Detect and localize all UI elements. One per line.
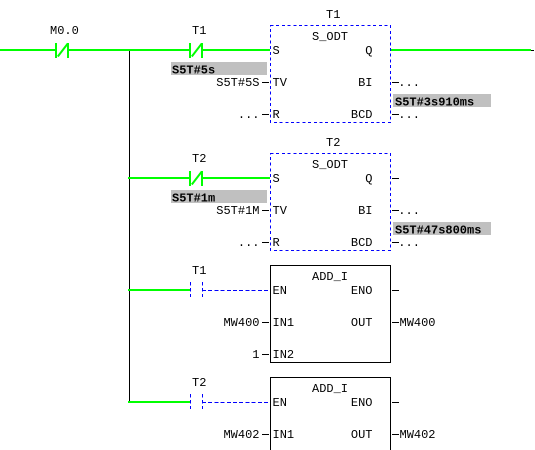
svg-text:T2: T2 (326, 136, 340, 150)
svg-text:S_ODT: S_ODT (312, 30, 348, 44)
svg-text:T2: T2 (192, 376, 206, 390)
svg-text:S: S (273, 172, 280, 186)
svg-text:...: ... (398, 204, 420, 218)
svg-text:T2: T2 (192, 152, 206, 166)
svg-text:TV: TV (273, 76, 288, 90)
svg-text:S5T#1M: S5T#1M (216, 204, 259, 218)
svg-text:IN2: IN2 (273, 348, 295, 362)
svg-text:...: ... (398, 108, 420, 122)
svg-text:BI: BI (358, 76, 372, 90)
svg-text:MW400: MW400 (223, 316, 259, 330)
svg-text:1: 1 (252, 348, 259, 362)
svg-text:R: R (273, 236, 280, 250)
svg-text:BCD: BCD (351, 236, 373, 250)
svg-text:...: ... (398, 236, 420, 250)
svg-text:Q: Q (365, 44, 372, 58)
svg-text:Q: Q (365, 172, 372, 186)
svg-text:R: R (273, 108, 280, 122)
svg-text:IN1: IN1 (273, 428, 295, 442)
svg-text:M0.0: M0.0 (50, 24, 79, 38)
svg-text:MW400: MW400 (400, 316, 436, 330)
svg-text:...: ... (238, 108, 260, 122)
svg-text:OUT: OUT (351, 316, 373, 330)
svg-text:S5T#5s: S5T#5s (172, 63, 215, 77)
svg-text:S5T#1m: S5T#1m (172, 191, 215, 205)
svg-text:T1: T1 (192, 24, 206, 38)
svg-text:...: ... (398, 76, 420, 90)
svg-text:ENO: ENO (351, 396, 373, 410)
svg-text:S: S (273, 44, 280, 58)
svg-text:OUT: OUT (351, 428, 373, 442)
svg-text:MW402: MW402 (223, 428, 259, 442)
svg-text:S5T#3s910ms: S5T#3s910ms (395, 95, 474, 109)
svg-text:S_ODT: S_ODT (312, 158, 348, 172)
svg-text:S5T#47s800ms: S5T#47s800ms (395, 223, 481, 237)
svg-text:EN: EN (273, 396, 287, 410)
svg-text:BI: BI (358, 204, 372, 218)
svg-text:ADD_I: ADD_I (312, 270, 348, 284)
svg-text:S5T#5S: S5T#5S (216, 76, 259, 90)
svg-text:TV: TV (273, 204, 288, 218)
svg-text:T1: T1 (326, 8, 340, 22)
svg-text:MW402: MW402 (400, 428, 436, 442)
svg-text:EN: EN (273, 284, 287, 298)
svg-text:T1: T1 (192, 264, 206, 278)
svg-text:BCD: BCD (351, 108, 373, 122)
svg-text:ADD_I: ADD_I (312, 382, 348, 396)
svg-text:IN1: IN1 (273, 316, 295, 330)
svg-text:...: ... (238, 236, 260, 250)
svg-text:ENO: ENO (351, 284, 373, 298)
